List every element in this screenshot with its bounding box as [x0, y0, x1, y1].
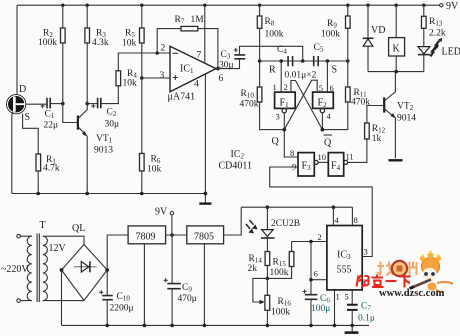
regulator 7809 — [128, 226, 166, 326]
regulator 7805 — [187, 226, 224, 326]
watermark logo and text — [377, 250, 453, 293]
resistor R4 — [116, 69, 137, 89]
svg-text:C3: C3 — [221, 50, 231, 61]
svg-text:4: 4 — [194, 80, 199, 90]
svg-text:R10: R10 — [241, 89, 255, 100]
svg-text:1k: 1k — [372, 134, 382, 144]
svg-text:Q: Q — [272, 136, 280, 147]
svg-text:100k: 100k — [271, 308, 290, 318]
wire C2 to R4 — [101, 86, 119, 104]
svg-text:1: 1 — [273, 82, 277, 92]
svg-text:R15: R15 — [273, 258, 287, 269]
wire 555 pin8 — [351, 207, 353, 225]
node 9V terminal — [440, 1, 459, 12]
resistor R11 — [322, 61, 370, 130]
svg-text:IC2: IC2 — [231, 149, 245, 161]
svg-text:K: K — [393, 44, 401, 55]
wire bottom rail — [62, 324, 370, 326]
svg-text:7809: 7809 — [136, 232, 156, 243]
resistor R6 — [140, 78, 162, 194]
svg-text:0.01μ×2: 0.01μ×2 — [285, 71, 317, 81]
wire R-S node line — [260, 60, 348, 62]
svg-text:R13: R13 — [429, 17, 443, 28]
wire top-circuit ground rail — [12, 193, 206, 195]
svg-text:555: 555 — [337, 265, 352, 276]
wire 5V supply line to 555 — [241, 206, 352, 208]
node op-amp output junction — [216, 67, 220, 71]
resistor R1 — [36, 154, 60, 194]
resistor R3 — [85, 5, 109, 103]
svg-text:8: 8 — [290, 148, 294, 158]
wire F4 output to R12 — [348, 139, 367, 162]
wire mic source to R1 — [23, 114, 39, 154]
svg-text:D: D — [19, 84, 26, 95]
svg-text:12V: 12V — [49, 243, 67, 254]
watermark text weiku — [357, 275, 411, 288]
transformer T primary winding — [27, 236, 32, 300]
transformer core — [37, 233, 39, 302]
resistor R2 — [38, 5, 65, 103]
IC3 555 timer — [327, 226, 362, 290]
svg-text:3: 3 — [364, 247, 368, 257]
wire bridge minus to bottom rail — [61, 270, 63, 325]
wire R4 to op-amp pin2 line — [118, 53, 170, 71]
svg-text:10k: 10k — [147, 165, 162, 175]
svg-text:4: 4 — [335, 215, 340, 225]
svg-text:11: 11 — [346, 152, 354, 162]
svg-text:2k: 2k — [248, 264, 258, 274]
wire secondary bottom to bridge — [43, 300, 84, 302]
wire 7805 output riser — [224, 207, 242, 235]
node pin3 junction — [140, 76, 144, 80]
node Qbar (junction dot) — [321, 128, 325, 132]
wire secondary top to bridge — [43, 236, 84, 244]
svg-text:9V: 9V — [155, 207, 168, 218]
diode VD — [363, 5, 386, 71]
svg-text:9014: 9014 — [397, 114, 416, 124]
svg-text:3: 3 — [276, 112, 280, 122]
svg-text:F1: F1 — [280, 98, 290, 110]
svg-text:R16: R16 — [278, 297, 292, 308]
junction dots on supply line — [266, 205, 336, 209]
node relay junction — [394, 70, 398, 74]
svg-text:7805: 7805 — [194, 232, 214, 243]
wire base drop to VT1 base — [63, 104, 77, 123]
svg-text:100μ: 100μ — [311, 304, 330, 314]
svg-text:T: T — [40, 220, 46, 231]
op-amp U1 IC1 uA741 — [168, 46, 217, 102]
node label Qbar — [324, 135, 333, 149]
junction dots on ground rail — [36, 192, 207, 196]
svg-text:10: 10 — [318, 152, 327, 162]
svg-text:6: 6 — [314, 269, 318, 279]
resistor R7 feedback — [157, 15, 218, 69]
wire 9V top rail — [17, 4, 440, 6]
transformer T secondary winding — [43, 236, 48, 300]
svg-text:9: 9 — [292, 162, 296, 172]
resistor R16 rheostat — [253, 278, 291, 325]
svg-text:9V: 9V — [446, 1, 459, 12]
svg-text:100k: 100k — [321, 30, 340, 40]
svg-text:www.dzsc.com: www.dzsc.com — [379, 288, 445, 299]
wire S node to F2 pin6 — [326, 61, 328, 92]
resistor R14 — [248, 252, 270, 279]
relay K — [389, 5, 405, 71]
junction dots on node line — [258, 59, 350, 63]
photodiode 2CU2B — [246, 207, 300, 251]
svg-text:R6: R6 — [151, 155, 161, 166]
node Q (junction dot) — [282, 128, 286, 132]
svg-text:C6: C6 — [320, 294, 330, 305]
svg-text:C10: C10 — [117, 292, 131, 303]
bridge rectifier QL — [62, 223, 108, 301]
svg-text:2CU2B: 2CU2B — [271, 219, 300, 229]
junction dots on bottom rail — [105, 324, 354, 328]
capacitor C3 — [219, 48, 245, 71]
svg-text:3: 3 — [160, 71, 165, 81]
svg-text:R: R — [269, 65, 276, 76]
wire bridge plus to 7809 — [107, 235, 128, 270]
wire VT1 emitter to ground rail — [86, 136, 88, 193]
wire F1 output to Q node — [283, 113, 285, 130]
node R14-R15-R16 junction — [266, 277, 270, 281]
svg-text:C5: C5 — [314, 43, 324, 54]
svg-text:2: 2 — [318, 232, 322, 242]
svg-text:R5: R5 — [125, 29, 135, 40]
svg-text:F3: F3 — [302, 161, 312, 173]
capacitor C4 — [277, 45, 293, 66]
wire Q to F3 pin8 — [284, 130, 298, 157]
gate F3 — [298, 153, 318, 176]
ground VT2 emitter — [389, 159, 403, 161]
svg-text:QL: QL — [72, 223, 85, 234]
resistor R9 — [321, 5, 350, 61]
svg-text:IC1: IC1 — [180, 64, 194, 76]
microphone BM (electret mic symbol) — [7, 95, 26, 114]
svg-text:C1: C1 — [45, 110, 55, 121]
wire R node to F1 pin1 — [280, 61, 282, 92]
svg-text:100k: 100k — [270, 268, 289, 278]
svg-text:CD4011: CD4011 — [219, 161, 253, 172]
svg-text:R14: R14 — [249, 254, 263, 265]
wire F3 to F4 — [318, 161, 328, 163]
wire rail to microphone drain — [16, 5, 18, 94]
svg-text:10k: 10k — [123, 79, 138, 89]
svg-text:2200μ: 2200μ — [110, 304, 134, 314]
svg-text:0.1μ: 0.1μ — [358, 314, 375, 324]
wire R12 to VT2 base — [367, 106, 383, 124]
svg-text:8: 8 — [354, 215, 358, 225]
wire F1 pin2 cross-couple to Qbar — [291, 81, 323, 130]
svg-text:VT1: VT1 — [96, 134, 113, 145]
junction dots bridge DC outputs — [60, 268, 110, 272]
svg-text:4.3k: 4.3k — [92, 38, 109, 48]
ground symbol op-amp — [199, 194, 211, 204]
node VT1 collector (junction dot) — [85, 102, 89, 106]
svg-text:LED: LED — [442, 47, 460, 58]
wire 555 pin4 — [332, 207, 334, 225]
resistor R5 — [122, 5, 144, 78]
node pin6/C6 junction — [309, 278, 313, 282]
capacitor C6 — [303, 242, 331, 326]
wire pin3 node to op-amp — [142, 77, 170, 79]
svg-text:9013: 9013 — [94, 146, 113, 156]
svg-text:1: 1 — [336, 292, 340, 302]
svg-text:4: 4 — [327, 111, 332, 121]
svg-text:C7: C7 — [361, 302, 371, 313]
LED — [418, 38, 460, 72]
node 9V tap junction — [170, 233, 174, 237]
wire mic output to C1 — [25, 103, 47, 105]
wire C3 to R-S node line — [240, 46, 303, 61]
svg-text:2.2k: 2.2k — [429, 29, 446, 39]
svg-text:S: S — [332, 65, 338, 76]
svg-text:2: 2 — [284, 82, 288, 92]
transistor VT1 9013 — [78, 104, 113, 156]
wire F2 output to Qbar node — [321, 113, 323, 130]
node 9V output terminal — [155, 207, 174, 236]
svg-text:C9: C9 — [182, 283, 192, 294]
wire C1 to base node — [50, 103, 63, 105]
gate F2 — [313, 92, 334, 113]
svg-text:F4: F4 — [331, 161, 341, 173]
resistor R12 — [365, 123, 386, 144]
wire F3 pin9 from 555 pin3 — [270, 167, 373, 257]
gate F4 — [328, 153, 347, 176]
svg-text:C4: C4 — [277, 45, 287, 56]
node feedback junction — [155, 51, 159, 55]
wire op-amp pin7 to 9V rail — [204, 5, 206, 63]
capacitor C9 — [164, 235, 197, 325]
svg-text:30μ: 30μ — [105, 120, 120, 130]
node base (junction dot) — [61, 102, 65, 106]
wire op-amp pin4 to ground — [204, 74, 206, 194]
capacitor C10 — [99, 270, 133, 325]
wire mic case leg to ground rail — [12, 112, 13, 194]
svg-text:R8: R8 — [265, 17, 275, 28]
svg-text:10k: 10k — [122, 39, 137, 49]
capacitor C2 — [87, 98, 119, 130]
svg-text:1M: 1M — [191, 15, 205, 25]
svg-text:Q: Q — [324, 138, 332, 149]
junction dots on 9V rail — [61, 3, 425, 6]
svg-text:~220V: ~220V — [1, 264, 29, 275]
node pin2/C6 junction — [309, 240, 313, 244]
ground symbol main — [345, 325, 359, 332]
wire relay node line — [368, 71, 424, 73]
svg-text:100k: 100k — [265, 30, 284, 40]
svg-text:2: 2 — [161, 44, 166, 54]
svg-text:6: 6 — [219, 74, 224, 84]
svg-text:F2: F2 — [318, 98, 328, 110]
resistor R15 — [267, 242, 294, 279]
capacitor C1 — [41, 98, 59, 131]
svg-text:470k: 470k — [240, 100, 259, 110]
svg-text:VT2: VT2 — [397, 102, 414, 113]
svg-text:C2: C2 — [107, 108, 117, 119]
resistor R8 — [257, 5, 283, 61]
transistor VT2 9014 — [384, 72, 416, 159]
svg-text:R7: R7 — [175, 15, 185, 26]
svg-text:5: 5 — [345, 292, 349, 302]
transformer T primary terminals — [17, 234, 32, 302]
svg-text:30μ: 30μ — [219, 61, 234, 71]
svg-text:R9: R9 — [327, 19, 337, 30]
svg-text:R12: R12 — [372, 124, 386, 135]
svg-text:22μ: 22μ — [44, 121, 59, 131]
wire 555 pin6 line — [311, 279, 327, 281]
svg-text:470μ: 470μ — [178, 294, 197, 304]
svg-text:IC3: IC3 — [337, 250, 351, 262]
wire F2 pin5 cross-couple to Q — [284, 80, 317, 129]
resistor R10 — [240, 61, 285, 130]
capacitor C5 — [314, 43, 324, 66]
wire 7809 to 7805 — [166, 234, 187, 236]
capacitor C7 — [347, 290, 375, 326]
resistor R13 — [422, 5, 446, 46]
svg-text:S: S — [25, 112, 31, 123]
svg-text:VD: VD — [371, 25, 385, 36]
gate F1 — [275, 92, 296, 113]
wire 555 pin2 line — [292, 241, 327, 243]
wire output to C3 — [216, 59, 240, 69]
svg-text:4.7k: 4.7k — [43, 164, 60, 174]
svg-text:7: 7 — [197, 51, 202, 61]
wire 555 pin1 to bottom rail — [334, 290, 336, 326]
svg-text:100k: 100k — [38, 38, 57, 48]
svg-text:μA741: μA741 — [168, 92, 196, 103]
